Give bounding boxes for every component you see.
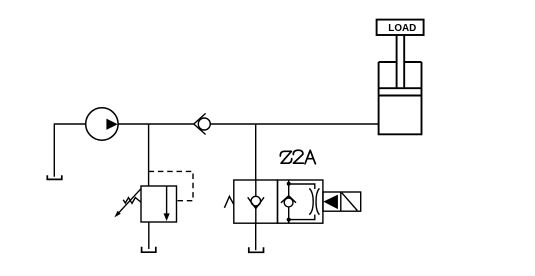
svg-text:LOAD: LOAD [388,23,416,34]
